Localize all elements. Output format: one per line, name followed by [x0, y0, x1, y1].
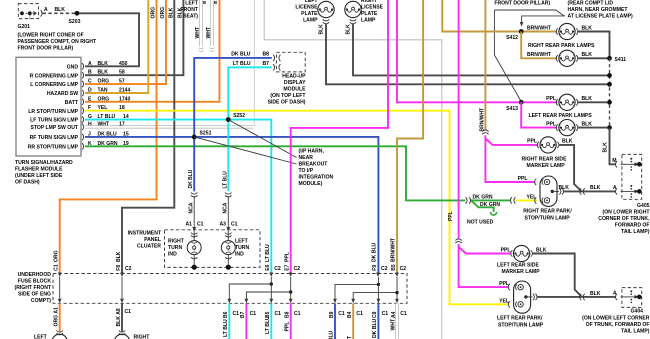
svg-text:PPL: PPL: [546, 96, 556, 102]
right rear park lamp 1: [556, 23, 578, 39]
pigtail NCA A1 C1: [193, 196, 195, 228]
head-up display module U-HUD: [231, 52, 306, 106]
svg-text:HARN, NEAR GROMMET: HARN, NEAR GROMMET: [568, 7, 629, 13]
svg-text:C2: C2: [294, 266, 301, 272]
svg-text:C1: C1: [125, 309, 132, 315]
svg-text:NCA: NCA: [222, 202, 228, 213]
svg-text:E6: E6: [265, 264, 271, 270]
svg-text:NEAR: NEAR: [299, 155, 314, 161]
wire BLK right park/stop/turn to G405: [563, 190, 616, 192]
svg-text:ORG: ORG: [160, 7, 166, 19]
svg-text:WHT: WHT: [195, 26, 201, 38]
svg-text:G404: G404: [631, 309, 644, 315]
svg-text:TURN SIGNAL/HAZARD: TURN SIGNAL/HAZARD: [15, 160, 73, 166]
svg-text:RIGHT REAR SIDE: RIGHT REAR SIDE: [522, 157, 568, 163]
svg-text:(I/P HARN,: (I/P HARN,: [299, 149, 325, 155]
svg-text:B: B: [203, 0, 206, 5]
svg-text:DK BLU: DK BLU: [329, 330, 335, 339]
svg-text:WHT: WHT: [206, 26, 212, 38]
svg-text:C1: C1: [338, 311, 345, 317]
svg-text:OF TRUNK, FORWARD OF: OF TRUNK, FORWARD OF: [586, 322, 650, 328]
svg-text:BLK: BLK: [346, 24, 352, 35]
svg-text:FORWARD OF: FORWARD OF: [615, 223, 650, 229]
rotated color labels above box: [53, 237, 396, 262]
wire BLK left marker return: [532, 254, 582, 297]
callout arrow to S412: [522, 16, 565, 23]
wire TAN 2144 pin D up: [85, 0, 148, 93]
svg-text:(ON LOWER RIGHT: (ON LOWER RIGHT: [603, 210, 650, 216]
svg-text:LEFT: LEFT: [34, 335, 48, 339]
top pin labels: [54, 264, 407, 272]
svg-text:H: H: [88, 121, 92, 127]
svg-text:PASSENGER COMPT, ON RIGHT: PASSENGER COMPT, ON RIGHT: [18, 39, 97, 45]
svg-text:A1: A1: [185, 222, 192, 228]
splice S203: [75, 11, 80, 16]
wire BLK park lamp 1 to S411: [578, 32, 610, 57]
svg-text:CLUATER: CLUATER: [137, 244, 161, 250]
wire BRN/WHT S412 drop to lamp 2: [521, 32, 557, 59]
svg-text:RR STOP/TURN LMP: RR STOP/TURN LMP: [28, 144, 79, 150]
svg-text:LT BLU: LT BLU: [233, 61, 251, 67]
left cornering lamp: [34, 331, 68, 339]
svg-text:ORG: ORG: [53, 250, 59, 262]
svg-text:GND: GND: [67, 64, 79, 70]
wire PPL branch to right rear side marker: [485, 139, 537, 145]
splice S413: [519, 100, 524, 105]
svg-text:COMPT): COMPT): [31, 298, 51, 304]
svg-text:PLATE: PLATE: [301, 11, 318, 17]
svg-text:TAIL LAMP): TAIL LAMP): [621, 329, 650, 335]
svg-text:RF TURN SIGN LMP: RF TURN SIGN LMP: [30, 135, 79, 141]
wire LT BLU to head-up display B7 and instrument cluster: [228, 67, 271, 191]
svg-text:C2: C2: [400, 266, 407, 272]
left rear side marker lamp: [511, 245, 533, 261]
svg-text:LEFT: LEFT: [185, 1, 199, 7]
wire PPL to left rear park/stop/turn lamp: [459, 244, 509, 287]
svg-text:(LOWER RIGHT CONER OF: (LOWER RIGHT CONER OF: [18, 33, 84, 39]
wire BLK dashed to ground G201: [42, 12, 75, 14]
svg-text:BLK: BLK: [590, 185, 601, 191]
not used terminator: [491, 212, 497, 215]
wire BRN/WHT right feed down: [484, 0, 486, 130]
svg-text:BLK A8: BLK A8: [116, 308, 122, 326]
svg-text:STOP/TURN LAMP: STOP/TURN LAMP: [498, 323, 544, 329]
svg-text:DK BLU: DK BLU: [188, 169, 194, 188]
svg-text:MARKER LAMP: MARKER LAMP: [502, 269, 541, 275]
svg-text:LAMP: LAMP: [361, 18, 376, 24]
svg-text:LF TURN SIGN LMP: LF TURN SIGN LMP: [30, 118, 78, 124]
svg-text:A: A: [88, 61, 92, 67]
svg-text:RIGHT: RIGHT: [134, 335, 151, 339]
wire WHT vertical pigtail 1 top: [199, 0, 204, 51]
svg-text:UNDERHOOD: UNDERHOOD: [18, 272, 52, 278]
left rear park/stop/turn lamp: [508, 281, 537, 313]
svg-text:LT BLU: LT BLU: [265, 244, 271, 262]
svg-text:B6: B6: [223, 311, 229, 318]
ground G404: [582, 288, 650, 335]
svg-text:A3: A3: [219, 222, 226, 228]
wire ORG feed down to underhood fuse block: [60, 0, 157, 273]
svg-text:MARKER LAMP: MARKER LAMP: [527, 163, 566, 169]
wire BLK park lamp 4 return: [578, 127, 608, 129]
svg-text:B8: B8: [263, 52, 270, 58]
svg-text:450: 450: [119, 61, 128, 67]
svg-text:F9: F9: [372, 265, 378, 271]
svg-text:RIGHT REAR PARK LAMPS: RIGHT REAR PARK LAMPS: [528, 43, 595, 49]
svg-text:C1: C1: [233, 311, 240, 317]
svg-text:BATT: BATT: [65, 100, 79, 106]
module pin labels: [28, 64, 79, 150]
svg-text:(ON TOP LEFT: (ON TOP LEFT: [270, 93, 306, 99]
svg-text:MODULE: MODULE: [283, 87, 306, 93]
wire BLK 58 pin B up: [85, 0, 183, 75]
svg-text:CORNER OF TRUNK,: CORNER OF TRUNK,: [598, 216, 650, 222]
svg-text:FRONT DOOR PILLAR): FRONT DOOR PILLAR): [18, 46, 74, 52]
wire BLK park lamp 3 return: [578, 101, 608, 103]
wire PPL to right rear park/stop/turn lamp: [485, 135, 535, 182]
bottom pin labels: [125, 309, 407, 318]
svg-text:NOT USED: NOT USED: [467, 220, 494, 226]
inline connector on DK GRN: [466, 197, 471, 203]
svg-text:S411: S411: [615, 57, 627, 63]
svg-text:G405: G405: [637, 203, 650, 209]
svg-text:B9: B9: [329, 311, 335, 318]
wire BLK left park/stop/turn to G404: [537, 296, 617, 298]
svg-text:LAMP: LAMP: [303, 18, 318, 24]
wire DK GRN branch not used: [472, 201, 494, 212]
wire WHT stop lamp sw out (H row band): [85, 125, 254, 128]
fuse block caption: [15, 272, 52, 304]
turn signal/hazard flasher module box: [16, 57, 81, 156]
svg-text:AT LICENSE PLATE LAMP): AT LICENSE PLATE LAMP): [568, 13, 633, 19]
svg-text:B5: B5: [391, 264, 397, 271]
svg-text:FRONT DOOR PILLAR): FRONT DOOR PILLAR): [494, 0, 550, 6]
svg-text:PPL: PPL: [448, 211, 454, 221]
wire BLK right marker return: [559, 145, 582, 192]
module caption: [15, 160, 73, 186]
svg-text:LT BLU: LT BLU: [222, 171, 228, 189]
svg-text:WHT: WHT: [98, 121, 110, 127]
svg-text:TURN: TURN: [235, 245, 249, 251]
svg-text:BLK: BLK: [55, 7, 66, 13]
inline connector DK GRN to YEL: [510, 197, 515, 203]
junction dots on collector: [607, 73, 612, 78]
svg-text:PPL: PPL: [527, 139, 537, 145]
svg-text:DK BLU: DK BLU: [372, 318, 378, 338]
svg-text:BLK: BLK: [559, 185, 570, 191]
svg-text:(RIGHT FRONT: (RIGHT FRONT: [15, 285, 52, 291]
right turn indicator lamp: [168, 230, 201, 270]
wires below connector box: [59, 303, 61, 331]
svg-text:LEFT REAR SIDE: LEFT REAR SIDE: [497, 262, 539, 268]
wire PPL S413 drop to lamp 4: [521, 102, 557, 127]
svg-text:BLK: BLK: [582, 121, 593, 127]
wire DK BLU 15 pin J to F9: [85, 137, 378, 273]
underhood fuse block / IP connector box: [53, 274, 407, 304]
left rear park lamp 2: [556, 120, 578, 136]
svg-text:B7: B7: [263, 61, 270, 67]
rotated labels below box: [53, 307, 396, 339]
svg-text:BREAKOUT: BREAKOUT: [299, 162, 329, 168]
svg-text:LICENSE: LICENSE: [361, 5, 384, 11]
svg-text:SIDE OF ENG: SIDE OF ENG: [18, 292, 51, 298]
left turn indicator lamp: [221, 230, 249, 270]
svg-text:ORG: ORG: [151, 7, 157, 19]
svg-text:LR STOP/TURN LMP: LR STOP/TURN LMP: [28, 109, 78, 115]
svg-text:B: B: [214, 0, 217, 5]
wire BRN/WHT center to B5: [397, 0, 423, 273]
wire PPL feed to S413: [397, 0, 557, 102]
svg-text:(ON LOWER LEFT CORNER: (ON LOWER LEFT CORNER: [582, 316, 650, 322]
svg-text:ORG A1: ORG A1: [53, 307, 59, 327]
caption under left front seat: [180, 1, 198, 20]
svg-text:BLK: BLK: [582, 96, 593, 102]
svg-text:DK BLU: DK BLU: [372, 242, 378, 262]
svg-text:C2: C2: [274, 266, 281, 272]
svg-text:MODULE): MODULE): [299, 181, 323, 187]
svg-text:IND: IND: [235, 251, 244, 257]
svg-text:B7: B7: [240, 311, 246, 318]
structure line near stop lamp wire: [253, 0, 255, 126]
svg-text:C1: C1: [250, 311, 257, 317]
right cornering lamp: [114, 331, 150, 339]
svg-text:BRN/WHT: BRN/WHT: [527, 52, 552, 58]
svg-text:C1: C1: [294, 311, 301, 317]
svg-text:C1: C1: [356, 311, 363, 317]
svg-text:FLASHER MODULE: FLASHER MODULE: [15, 167, 63, 173]
splice S412: [519, 29, 524, 34]
wire BLK collector to G405 pin M: [610, 128, 617, 165]
svg-text:BLK: BLK: [536, 247, 547, 253]
pigtail NCA A3 C1: [227, 196, 229, 228]
callout line to S413: [494, 10, 521, 102]
svg-text:S252: S252: [233, 113, 245, 119]
svg-text:S412: S412: [506, 35, 518, 41]
svg-text:DISPLAY: DISPLAY: [284, 80, 306, 86]
splice S252: [226, 117, 231, 122]
svg-text:HEAD-UP: HEAD-UP: [282, 74, 306, 80]
wire PPL from top to E7: [291, 0, 388, 273]
wire BLK 450 pin A to S203: [78, 13, 139, 66]
wire DK BLU to head-up display B8 and instrument cluster: [194, 58, 272, 191]
wire LT BLU 14 pin G to E6: [85, 120, 271, 273]
svg-text:PLATE: PLATE: [361, 11, 378, 17]
svg-text:TO I/P: TO I/P: [299, 168, 314, 174]
svg-text:G201: G201: [18, 24, 31, 30]
svg-text:WHT: WHT: [391, 318, 397, 330]
svg-text:STOP/TURN LAMP: STOP/TURN LAMP: [525, 216, 571, 222]
svg-text:C1: C1: [231, 222, 238, 228]
svg-text:A: A: [44, 7, 48, 13]
svg-text:C1: C1: [54, 264, 60, 271]
svg-text:17: 17: [119, 121, 125, 127]
svg-text:BLK: BLK: [582, 25, 593, 31]
harness outline box around license plate lamps: [264, 0, 442, 339]
wire DK GRN to connector: [471, 199, 510, 201]
callout lines to I/P harn note: [228, 120, 296, 158]
svg-text:DK GRN: DK GRN: [480, 202, 500, 208]
svg-text:OF DASH): OF DASH): [15, 180, 40, 186]
wire YEL into right rear park/stop/turn lamp: [516, 199, 537, 201]
module pin sockets: [82, 63, 84, 149]
svg-text:C2: C2: [125, 266, 132, 272]
svg-text:E7: E7: [285, 264, 291, 270]
svg-text:IND: IND: [168, 251, 177, 257]
svg-text:INSTRUMENT: INSTRUMENT: [128, 231, 162, 237]
wire PPL branch to left rear side marker: [459, 247, 511, 254]
wire DK GRN 19 pin K: [85, 146, 465, 200]
svg-text:LEFT: LEFT: [305, 0, 319, 4]
svg-text:PPL: PPL: [284, 322, 290, 332]
wire ORG 1740 pin E up: [85, 0, 220, 102]
svg-text:BLK: BLK: [603, 142, 609, 153]
svg-text:PPL: PPL: [546, 121, 556, 127]
svg-text:LT BLU: LT BLU: [265, 316, 271, 334]
svg-text:LICENSE: LICENSE: [295, 5, 318, 11]
left license plate lamp: [295, 0, 334, 34]
exit arrows: [58, 299, 399, 304]
svg-text:BLK: BLK: [116, 251, 122, 262]
splice S251: [192, 135, 197, 140]
top rotated wire labels: [151, 7, 212, 39]
right rear side marker lamp: [537, 137, 559, 153]
inline connector LT BLU to cluster: [225, 193, 231, 197]
svg-text:C1: C1: [197, 222, 204, 228]
inline connector BRN/WHT to PPL: [482, 130, 488, 134]
svg-text:PANEL: PANEL: [144, 237, 161, 243]
svg-text:B4: B4: [347, 311, 353, 318]
svg-text:RIGHT REAR PARK/: RIGHT REAR PARK/: [523, 209, 572, 215]
svg-text:R CORNERING LMP: R CORNERING LMP: [30, 73, 79, 79]
wire BLK left license lamp return: [326, 24, 608, 85]
svg-text:S251: S251: [200, 131, 212, 137]
svg-text:FUSE BLOCK: FUSE BLOCK: [18, 279, 51, 285]
wire BLK feed down to underhood fuse block: [122, 0, 174, 273]
svg-text:BLK: BLK: [590, 291, 601, 297]
wire YEL 18 pin F to left rear stop/turn lamp: [85, 111, 508, 305]
instrument panel cluster box: [165, 230, 261, 268]
svg-text:STOP LMP SW OUT: STOP LMP SW OUT: [30, 125, 78, 131]
svg-text:NCA: NCA: [188, 202, 194, 213]
wire ORG 57 pin C up: [85, 0, 166, 84]
internal fuse block connections: [60, 277, 397, 300]
svg-text:BLK: BLK: [582, 52, 593, 58]
svg-text:HAZARD SW: HAZARD SW: [47, 91, 78, 97]
svg-text:RIGHT: RIGHT: [168, 238, 185, 244]
callout line to rear compt note: [494, 10, 564, 16]
left rear park lamp 1: [556, 94, 578, 110]
svg-text:PPL: PPL: [284, 252, 290, 262]
ground G201: [18, 4, 97, 52]
svg-text:C1: C1: [382, 311, 389, 317]
svg-text:B8: B8: [285, 311, 291, 318]
svg-text:SIDE OF DASH): SIDE OF DASH): [268, 100, 306, 106]
svg-text:PPL: PPL: [499, 281, 509, 287]
svg-text:PPL: PPL: [501, 247, 511, 253]
wire BLK park lamp 2 to S411: [578, 57, 608, 59]
right rear park lamp 2: [556, 50, 578, 66]
svg-text:BRN/WHT: BRN/WHT: [527, 25, 552, 31]
dashed ground collector line: [609, 58, 611, 127]
svg-text:C1: C1: [400, 311, 407, 317]
wire PPL left feed down: [458, 0, 460, 239]
wire BRN/WHT feed to S412: [442, 0, 557, 32]
svg-text:INTEGRATION: INTEGRATION: [299, 175, 334, 181]
svg-text:TAIL LAMP): TAIL LAMP): [621, 229, 650, 235]
splice S411: [607, 56, 612, 61]
svg-text:LEFT REAR PARK LAMPS: LEFT REAR PARK LAMPS: [529, 113, 593, 119]
svg-text:DK GRN: DK GRN: [473, 194, 493, 200]
svg-text:BLK: BLK: [98, 61, 109, 67]
inline connector on PPL: [455, 239, 461, 243]
svg-text:BLK: BLK: [319, 24, 325, 35]
svg-text:BLK: BLK: [168, 7, 174, 18]
svg-text:(REAR COMPT LID: (REAR COMPT LID: [568, 0, 614, 6]
svg-text:FRONT: FRONT: [180, 7, 198, 13]
svg-text:C1: C1: [275, 311, 282, 317]
svg-text:BRN/WHT: BRN/WHT: [391, 237, 397, 262]
svg-text:(UNDER LEFT SIDE: (UNDER LEFT SIDE: [15, 173, 63, 179]
wire BLK right license lamp return: [353, 24, 608, 76]
svg-text:BRN/WHT: BRN/WHT: [479, 108, 485, 132]
right license plate lamp: [345, 0, 384, 34]
svg-text:C9: C9: [372, 311, 378, 318]
ground G405: [598, 154, 650, 235]
right rear park/stop/turn lamp: [535, 176, 564, 207]
svg-text:SEAT): SEAT): [183, 14, 198, 20]
wire WHT vertical pigtail 2 top: [210, 0, 215, 51]
svg-text:PPL: PPL: [518, 176, 528, 182]
svg-text:C2: C2: [381, 266, 388, 272]
svg-text:LEFT: LEFT: [235, 238, 249, 244]
svg-text:BLK: BLK: [562, 139, 573, 145]
svg-text:S203: S203: [69, 19, 81, 25]
svg-text:YEL: YEL: [499, 298, 509, 304]
entry arrows: [58, 273, 399, 278]
svg-text:S413: S413: [506, 106, 518, 112]
svg-text:RIGHT: RIGHT: [361, 0, 378, 4]
svg-text:F8: F8: [116, 265, 122, 271]
inline connector DK BLU to cluster: [191, 193, 197, 197]
svg-text:LEFT REAR PARK/: LEFT REAR PARK/: [497, 316, 543, 322]
svg-text:L CORNERING LMP: L CORNERING LMP: [30, 82, 78, 88]
svg-text:LT BLU: LT BLU: [223, 319, 229, 337]
svg-text:DK BLU: DK BLU: [231, 52, 251, 58]
svg-text:TURN: TURN: [168, 245, 182, 251]
